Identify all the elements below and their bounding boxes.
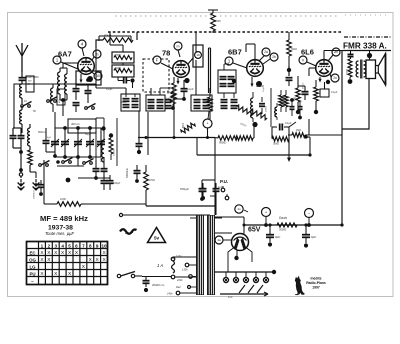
wire heater drops <box>226 272 266 277</box>
svg-text:3: 3 <box>54 243 57 248</box>
label small 1 <box>24 100 27 103</box>
capacitor 78 cathode <box>174 80 194 101</box>
wire AF line <box>146 205 215 207</box>
IF can 4 <box>218 70 236 93</box>
IF can 1 <box>121 94 140 111</box>
capacitor black 6B7 <box>286 66 293 86</box>
wire 6A7 anode up <box>95 48 97 58</box>
resistor 25000 OT <box>347 59 353 84</box>
svg-text:10: 10 <box>96 74 100 78</box>
wire 6A7 down to IF <box>95 58 97 88</box>
pin 4 top cap <box>78 40 86 56</box>
svg-text:+: + <box>207 122 209 126</box>
svg-text:25kΩ: 25kΩ <box>114 54 121 57</box>
svg-text:350cm: 350cm <box>196 99 203 101</box>
svg-text:7: 7 <box>82 243 85 248</box>
wire IF2 to 78 grid <box>160 88 173 95</box>
svg-text:Toute mes. µµF: Toute mes. µµF <box>45 231 75 236</box>
svg-text:0,1µF: 0,1µF <box>263 86 265 92</box>
arrow dot below 78 <box>176 78 189 85</box>
svg-text:500kΩ: 500kΩ <box>219 142 226 145</box>
wire top HT dotted bus <box>108 31 342 33</box>
transformer T1 primary <box>196 215 204 295</box>
table header numbers <box>41 243 107 248</box>
label small 11 <box>296 130 301 132</box>
svg-text:10: 10 <box>196 53 200 57</box>
pin 10 right <box>92 72 102 80</box>
svg-text:2a: 2a <box>264 50 268 54</box>
label 1A <box>157 263 163 268</box>
wire AF drop <box>202 180 215 186</box>
capacitor det C <box>259 97 268 114</box>
wire <box>21 124 23 133</box>
ground left A <box>18 173 25 186</box>
svg-text:EC: EC <box>29 250 36 255</box>
capacitor below bus <box>136 138 143 155</box>
resistor 78 cathode <box>167 77 176 106</box>
speaker SP1 <box>366 54 386 86</box>
svg-text:20000 cm: 20000 cm <box>151 283 165 287</box>
capacitor mains <box>143 276 165 292</box>
resistor filter choke <box>277 223 297 232</box>
resistor vert pair A <box>279 90 284 112</box>
capacitor 6B7 right A <box>290 98 295 116</box>
svg-text:2MΩ: 2MΩ <box>214 19 221 23</box>
svg-text:m: m <box>177 44 180 48</box>
capacitor padder 500cm <box>38 131 50 152</box>
svg-text:1: 1 <box>41 243 44 248</box>
wire top run left block <box>14 83 96 85</box>
svg-text:LG: LG <box>29 264 36 269</box>
label small 4 <box>175 86 177 90</box>
capacitor 6B7 right B <box>298 102 303 119</box>
box dashed osc <box>143 59 169 92</box>
resistor 1M 6L6 grid <box>292 133 342 139</box>
svg-text:400: 400 <box>294 96 297 101</box>
svg-text:5v: 5v <box>154 236 160 241</box>
label small 9 <box>84 134 92 136</box>
box osc pad <box>193 45 203 67</box>
wire under gang <box>57 165 84 167</box>
svg-text:8µF: 8µF <box>275 235 280 239</box>
box divider B <box>112 65 134 77</box>
lamp LP1 <box>223 277 228 282</box>
label PU <box>220 179 228 184</box>
capacitor gang 3 <box>74 128 82 157</box>
pin 2n <box>330 74 339 82</box>
svg-text:2n: 2n <box>333 76 337 80</box>
pin 1 <box>53 56 78 69</box>
capacitor stack A <box>73 84 80 112</box>
label 6L6 <box>301 48 314 57</box>
resistor 1M grid <box>57 197 85 206</box>
box aerial coupler <box>26 76 34 92</box>
svg-text:78: 78 <box>162 49 170 58</box>
wire B+ rail <box>243 224 343 227</box>
capacitor 50000cm <box>126 165 141 183</box>
wire 6B7 right vert <box>270 88 272 127</box>
coil small AF <box>275 103 277 120</box>
wire 6L6 grid <box>309 68 316 76</box>
wire IF drops <box>126 88 175 110</box>
wire OT bottom down <box>342 79 369 130</box>
meter circle 1 <box>262 208 271 227</box>
wire double vertical <box>209 48 211 93</box>
wire rect plates <box>215 217 244 234</box>
scan speckle top <box>115 15 390 16</box>
svg-text:Inédits: Inédits <box>311 277 322 281</box>
pin 10 right 78 <box>188 58 193 64</box>
svg-text:47kΩ: 47kΩ <box>149 179 155 182</box>
label MF 489 <box>40 214 88 223</box>
wire bus y88 <box>96 87 126 89</box>
label small 2 <box>33 110 36 113</box>
capacitor 0.1 left <box>93 160 100 180</box>
wire resistor bracket <box>99 36 131 41</box>
capacitor 8uF A <box>266 225 280 247</box>
svg-text:OG: OG <box>29 257 36 262</box>
wire T1 taps <box>175 276 196 278</box>
label small 13 <box>120 102 127 104</box>
coil det 47k <box>251 92 258 127</box>
resistor 100000 <box>109 133 116 160</box>
coil L3 osc <box>28 124 30 150</box>
antenna <box>16 43 28 72</box>
wire 78 cath to bus <box>173 106 175 138</box>
lamp LP5 <box>263 277 268 282</box>
wire anode resistor to 6A7 <box>96 40 103 48</box>
pin 2b <box>263 53 278 64</box>
label small 8 <box>228 296 233 299</box>
svg-text:1x: 1x <box>237 207 241 211</box>
table X marks <box>40 250 106 277</box>
svg-text:110v: 110v <box>176 254 182 258</box>
label small 3 <box>148 107 155 109</box>
svg-text:350cm: 350cm <box>120 102 127 104</box>
label 65V <box>248 227 261 234</box>
capacitor 0.1 below box <box>106 78 135 92</box>
svg-text:10000: 10000 <box>266 105 268 112</box>
svg-text:850µµF: 850µµF <box>180 187 189 191</box>
svg-text:50000cm: 50000cm <box>126 168 129 178</box>
wire gang bottom bus <box>55 155 101 159</box>
resistor vert pair B <box>284 90 289 112</box>
svg-text:1µF: 1µF <box>218 186 223 189</box>
svg-text:65V: 65V <box>248 227 261 234</box>
resistor 2M top <box>211 13 221 33</box>
ground left B <box>33 179 40 186</box>
svg-text:0.1µF: 0.1µF <box>285 122 292 125</box>
capacitor PU <box>213 183 220 196</box>
capacitor AF couple <box>272 122 296 138</box>
svg-text:300: 300 <box>167 89 170 94</box>
capacitor near OT <box>348 51 354 60</box>
label note italic <box>45 231 75 236</box>
label small 15 <box>263 86 265 92</box>
wire heater bus <box>215 270 276 274</box>
capacitor trimmer left pair <box>10 128 25 148</box>
tube U4 6L6 <box>316 60 333 77</box>
arrow below 6L6 <box>318 77 321 83</box>
lamp LP3 <box>243 277 248 282</box>
box divider A <box>112 52 134 63</box>
svg-text:500cm: 500cm <box>38 131 46 134</box>
coil L1 antenna <box>20 84 22 98</box>
capacitor 6L6 couple <box>320 80 338 97</box>
svg-text:100µF: 100µF <box>113 182 121 185</box>
coil L5 500 <box>56 68 60 100</box>
wire left vertical <box>13 95 14 128</box>
svg-text:25000: 25000 <box>347 68 349 75</box>
svg-text:6L6: 6L6 <box>301 48 314 57</box>
wire AF right link <box>306 137 312 157</box>
terminal fuse bottom <box>171 275 175 279</box>
svg-text:500: 500 <box>56 89 60 94</box>
wire 78 screen drop <box>195 32 197 95</box>
svg-text:240v: 240v <box>166 292 173 296</box>
svg-text:Radio-Plans: Radio-Plans <box>306 281 326 285</box>
tube U5 rectifier <box>232 234 249 251</box>
wire bus drop to anode resistor <box>136 32 138 40</box>
pin m right <box>92 50 101 60</box>
wire underline title <box>343 50 391 52</box>
circle MF detector <box>203 111 212 138</box>
wire <box>21 98 23 104</box>
terminal PU2 <box>225 194 229 200</box>
resistor SG 6B7 <box>287 32 297 66</box>
IF can 2 <box>146 95 172 111</box>
black dot 6L6 below <box>0 0 1 1</box>
svg-text:50kΩ: 50kΩ <box>291 48 297 51</box>
resistor pot 2 <box>236 136 254 141</box>
label Daxio <box>279 216 287 220</box>
wire AVC bus <box>197 138 310 156</box>
coil L2 <box>20 106 22 124</box>
wire PU line <box>119 213 210 216</box>
table grid <box>27 242 108 285</box>
logo dog silhouette <box>295 276 305 295</box>
label small 14 <box>196 99 203 101</box>
svg-text:5: 5 <box>68 243 71 248</box>
wire can4 leads <box>224 64 229 70</box>
svg-text:4a: 4a <box>217 238 221 242</box>
svg-text:360 cm: 360 cm <box>71 122 81 126</box>
pin m top 78 <box>174 42 182 57</box>
black dot OT top <box>367 51 372 61</box>
label 6B7 <box>228 48 242 57</box>
label 78 <box>162 49 170 58</box>
wire down to switch <box>77 157 79 166</box>
terminal 220v <box>176 275 196 282</box>
label 1937-38 <box>48 225 73 232</box>
wire mains to fuse <box>142 276 171 278</box>
ground mid B <box>33 183 40 190</box>
resistor 6L6 cathode <box>294 76 301 114</box>
svg-text:MF = 489 kHz: MF = 489 kHz <box>40 214 88 223</box>
capacitor 0.1 left b <box>101 157 108 178</box>
label small 7 <box>218 186 223 189</box>
svg-text:50kΩ: 50kΩ <box>273 143 279 146</box>
wire junction <box>13 148 23 160</box>
pin 2a <box>259 48 270 61</box>
table row labels <box>29 250 36 283</box>
black dot 6B7 left <box>232 79 236 83</box>
page border <box>8 13 394 297</box>
wire wiper arrow <box>287 127 291 162</box>
switch S5 <box>56 158 72 183</box>
box 360cm <box>68 119 96 133</box>
tube U3 6B7 <box>247 60 264 77</box>
box 450cm <box>57 89 65 105</box>
svg-text:6: 6 <box>75 243 78 248</box>
resistor 30k <box>114 67 132 73</box>
resistor 25k <box>114 54 132 60</box>
svg-text:2b: 2b <box>272 55 276 59</box>
capacitor 850 <box>180 186 206 201</box>
switch mains <box>117 272 142 278</box>
lamp LP4 <box>253 277 258 282</box>
arrow marks lamps <box>239 285 263 293</box>
symbol tone wave <box>120 229 137 234</box>
wire loop left mid <box>96 118 117 166</box>
svg-text:30kΩ: 30kΩ <box>115 67 121 70</box>
svg-text:2: 2 <box>48 243 51 248</box>
capacitor 100uF A <box>101 175 121 190</box>
terminal 240v <box>166 291 196 295</box>
capacitor det pair <box>221 93 238 108</box>
wire 6L6 vert <box>288 119 309 135</box>
pin 1x <box>235 205 248 213</box>
symbol triangle 5v <box>148 228 166 243</box>
svg-text:10: 10 <box>101 243 107 248</box>
wire rect bottom <box>234 250 238 260</box>
svg-text:8: 8 <box>89 243 92 248</box>
wire 6A7 cathode leads <box>80 74 94 83</box>
coil OT secondary <box>364 61 366 77</box>
wire IF1 down <box>139 111 148 155</box>
svg-text:Rad.: Rad. <box>176 286 181 289</box>
label credit <box>306 277 326 290</box>
capacitor stack B <box>85 78 92 103</box>
svg-text:0.1µF: 0.1µF <box>331 91 338 94</box>
wire 6B7 cathode <box>251 77 263 87</box>
svg-text:130v: 130v <box>182 268 188 272</box>
switch S2 <box>47 97 58 103</box>
meter circle 2 <box>305 209 314 227</box>
wire <box>30 172 36 178</box>
svg-text:8µF: 8µF <box>311 235 316 239</box>
capacitor gang 4 <box>86 128 94 157</box>
wire heater return <box>220 292 268 296</box>
svg-text:Daxio: Daxio <box>279 216 287 220</box>
pin 1 6B7 <box>225 57 247 68</box>
capacitor 8uF B <box>302 225 316 248</box>
IF can 3 <box>191 95 212 111</box>
wire left ground run <box>19 160 23 178</box>
wire T1 top leads <box>190 217 222 219</box>
label FMR 338 A. <box>343 42 387 51</box>
pin 4a <box>215 236 232 244</box>
svg-text:4: 4 <box>61 243 64 248</box>
coil L6 <box>65 68 67 100</box>
label small 10 <box>47 137 51 139</box>
resistor slant diode 2 <box>250 109 268 121</box>
wire box drops <box>110 32 133 88</box>
svg-text:1MΩ: 1MΩ <box>296 130 301 132</box>
resistor 47k AF <box>144 165 155 206</box>
box below 6A7 <box>76 71 101 85</box>
wire rect filament <box>228 246 252 272</box>
capacitor near T1 top <box>200 183 207 200</box>
terminal fuse top <box>171 254 196 261</box>
svg-text:20000cm: 20000cm <box>34 190 36 199</box>
fuse 1A <box>172 261 175 273</box>
svg-text:F: F <box>156 58 159 63</box>
capacitor antenna series <box>19 72 39 84</box>
svg-text:6B7: 6B7 <box>228 48 242 57</box>
pin V <box>299 56 316 66</box>
capacitor gang 5 <box>97 128 105 157</box>
switch S1 wave band <box>21 102 32 108</box>
ground mid A <box>18 183 25 190</box>
wire to 1M <box>44 160 57 204</box>
resistor slant diode 1 <box>236 105 254 117</box>
svg-text:1997: 1997 <box>312 286 320 290</box>
wire <box>60 63 78 68</box>
svg-text:FMR 338 A.: FMR 338 A. <box>343 42 387 51</box>
coil 300000 <box>101 126 106 162</box>
wire mid bus 137 <box>138 136 215 139</box>
svg-text:1 A: 1 A <box>157 263 163 268</box>
capacitor 6L6 bypass <box>298 82 309 100</box>
wire grid link <box>85 203 146 205</box>
resistor small 100 <box>171 88 176 108</box>
label 6A7 <box>58 50 72 59</box>
svg-text:1MΩ: 1MΩ <box>60 197 66 201</box>
resistor 10k cathode <box>28 150 33 172</box>
resistor 50k AF <box>272 137 289 146</box>
pin F <box>153 56 173 69</box>
wire <box>46 112 57 158</box>
svg-text:0.1µF: 0.1µF <box>187 88 194 91</box>
wire 6B7 anode <box>246 44 255 60</box>
label small 12 <box>165 98 170 100</box>
tube U2 78 <box>173 61 190 78</box>
lamp LP2 <box>233 277 238 282</box>
switch S4 <box>39 161 50 167</box>
svg-text:P.U.: P.U. <box>220 179 228 184</box>
wire mid vert 215 <box>214 138 216 216</box>
svg-text:300000: 300000 <box>101 154 103 162</box>
switch S3 <box>85 104 96 110</box>
resistor 50k anode <box>103 34 133 43</box>
svg-text:220v: 220v <box>176 278 183 282</box>
junction dots rail <box>268 223 343 226</box>
coil OT primary <box>356 61 358 77</box>
label small 6 <box>240 123 247 128</box>
coil L4 RF secondary <box>51 84 53 112</box>
svg-text:6,3v: 6,3v <box>228 296 233 299</box>
wire ground bus left mid <box>78 177 110 179</box>
resistor vert 500k det <box>208 88 213 119</box>
tube U1 6A7 <box>78 58 95 75</box>
svg-text:360cm: 360cm <box>148 107 155 109</box>
capacitor gang 1 <box>51 130 59 156</box>
pin 2m <box>328 48 340 61</box>
transformer T1 secondary <box>207 215 215 295</box>
terminal 130v <box>182 263 196 271</box>
capacitor mid gnd <box>34 180 45 199</box>
